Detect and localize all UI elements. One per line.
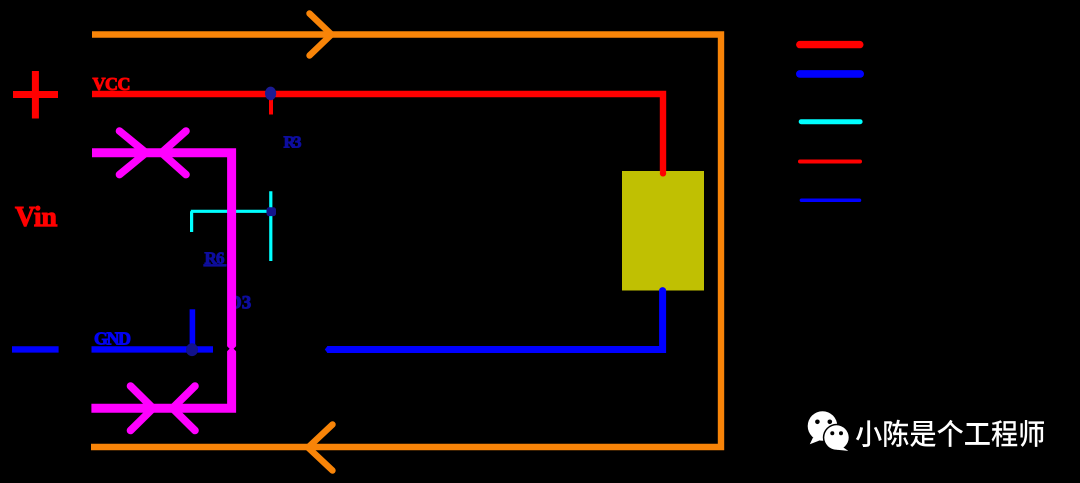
legend line 5 thin blue [801,198,859,202]
svg-text:Vin: Vin [15,202,57,233]
node Vin plus terminal [13,71,58,119]
label Vin underline [34,224,57,227]
capacitor C cyan network [191,191,273,261]
diode D top right chevron [162,131,187,175]
wire blue return left tip [325,346,328,353]
svg-text:VCC: VCC [93,74,131,94]
wire blue stub above GND junction [190,309,196,349]
diode D bottom left chevron [131,386,154,431]
diode D bottom right chevron [173,386,196,431]
node Vin minus terminal [12,346,59,352]
wire magenta loop [91,153,231,408]
legend line 1 thick red [800,41,860,48]
wire red stub below node R3 [269,98,273,115]
wire red tip on load [660,170,666,176]
svg-text:R3: R3 [284,133,302,152]
node junction on VCC rail [265,87,276,101]
legend line 3 thin cyan [801,119,860,124]
legend line 2 thick blue [800,70,860,78]
junction pinch marks on magenta wire [226,345,237,352]
logo wechat big bubble [808,411,838,444]
wire orange arrow bottom [308,425,333,471]
wire blue return from load [327,291,662,350]
node junction on GND rail [186,343,198,356]
wire GND blue rail left [92,346,214,352]
wire blue tip on load [659,287,666,294]
node junction on cyan net [267,207,277,216]
label R6 underline [203,264,226,267]
wire orange arrow top [310,14,332,56]
resistor load RL yellow body [622,171,704,291]
wire orange current loop [91,35,721,448]
wire VCC red rail [92,94,663,172]
logo wechat small bubble [823,424,850,451]
label watermark 小陈是个工程师 [856,420,1044,447]
legend line 4 thin red [800,160,860,164]
svg-text:GND: GND [94,329,131,349]
diode D top left chevron [120,131,147,175]
